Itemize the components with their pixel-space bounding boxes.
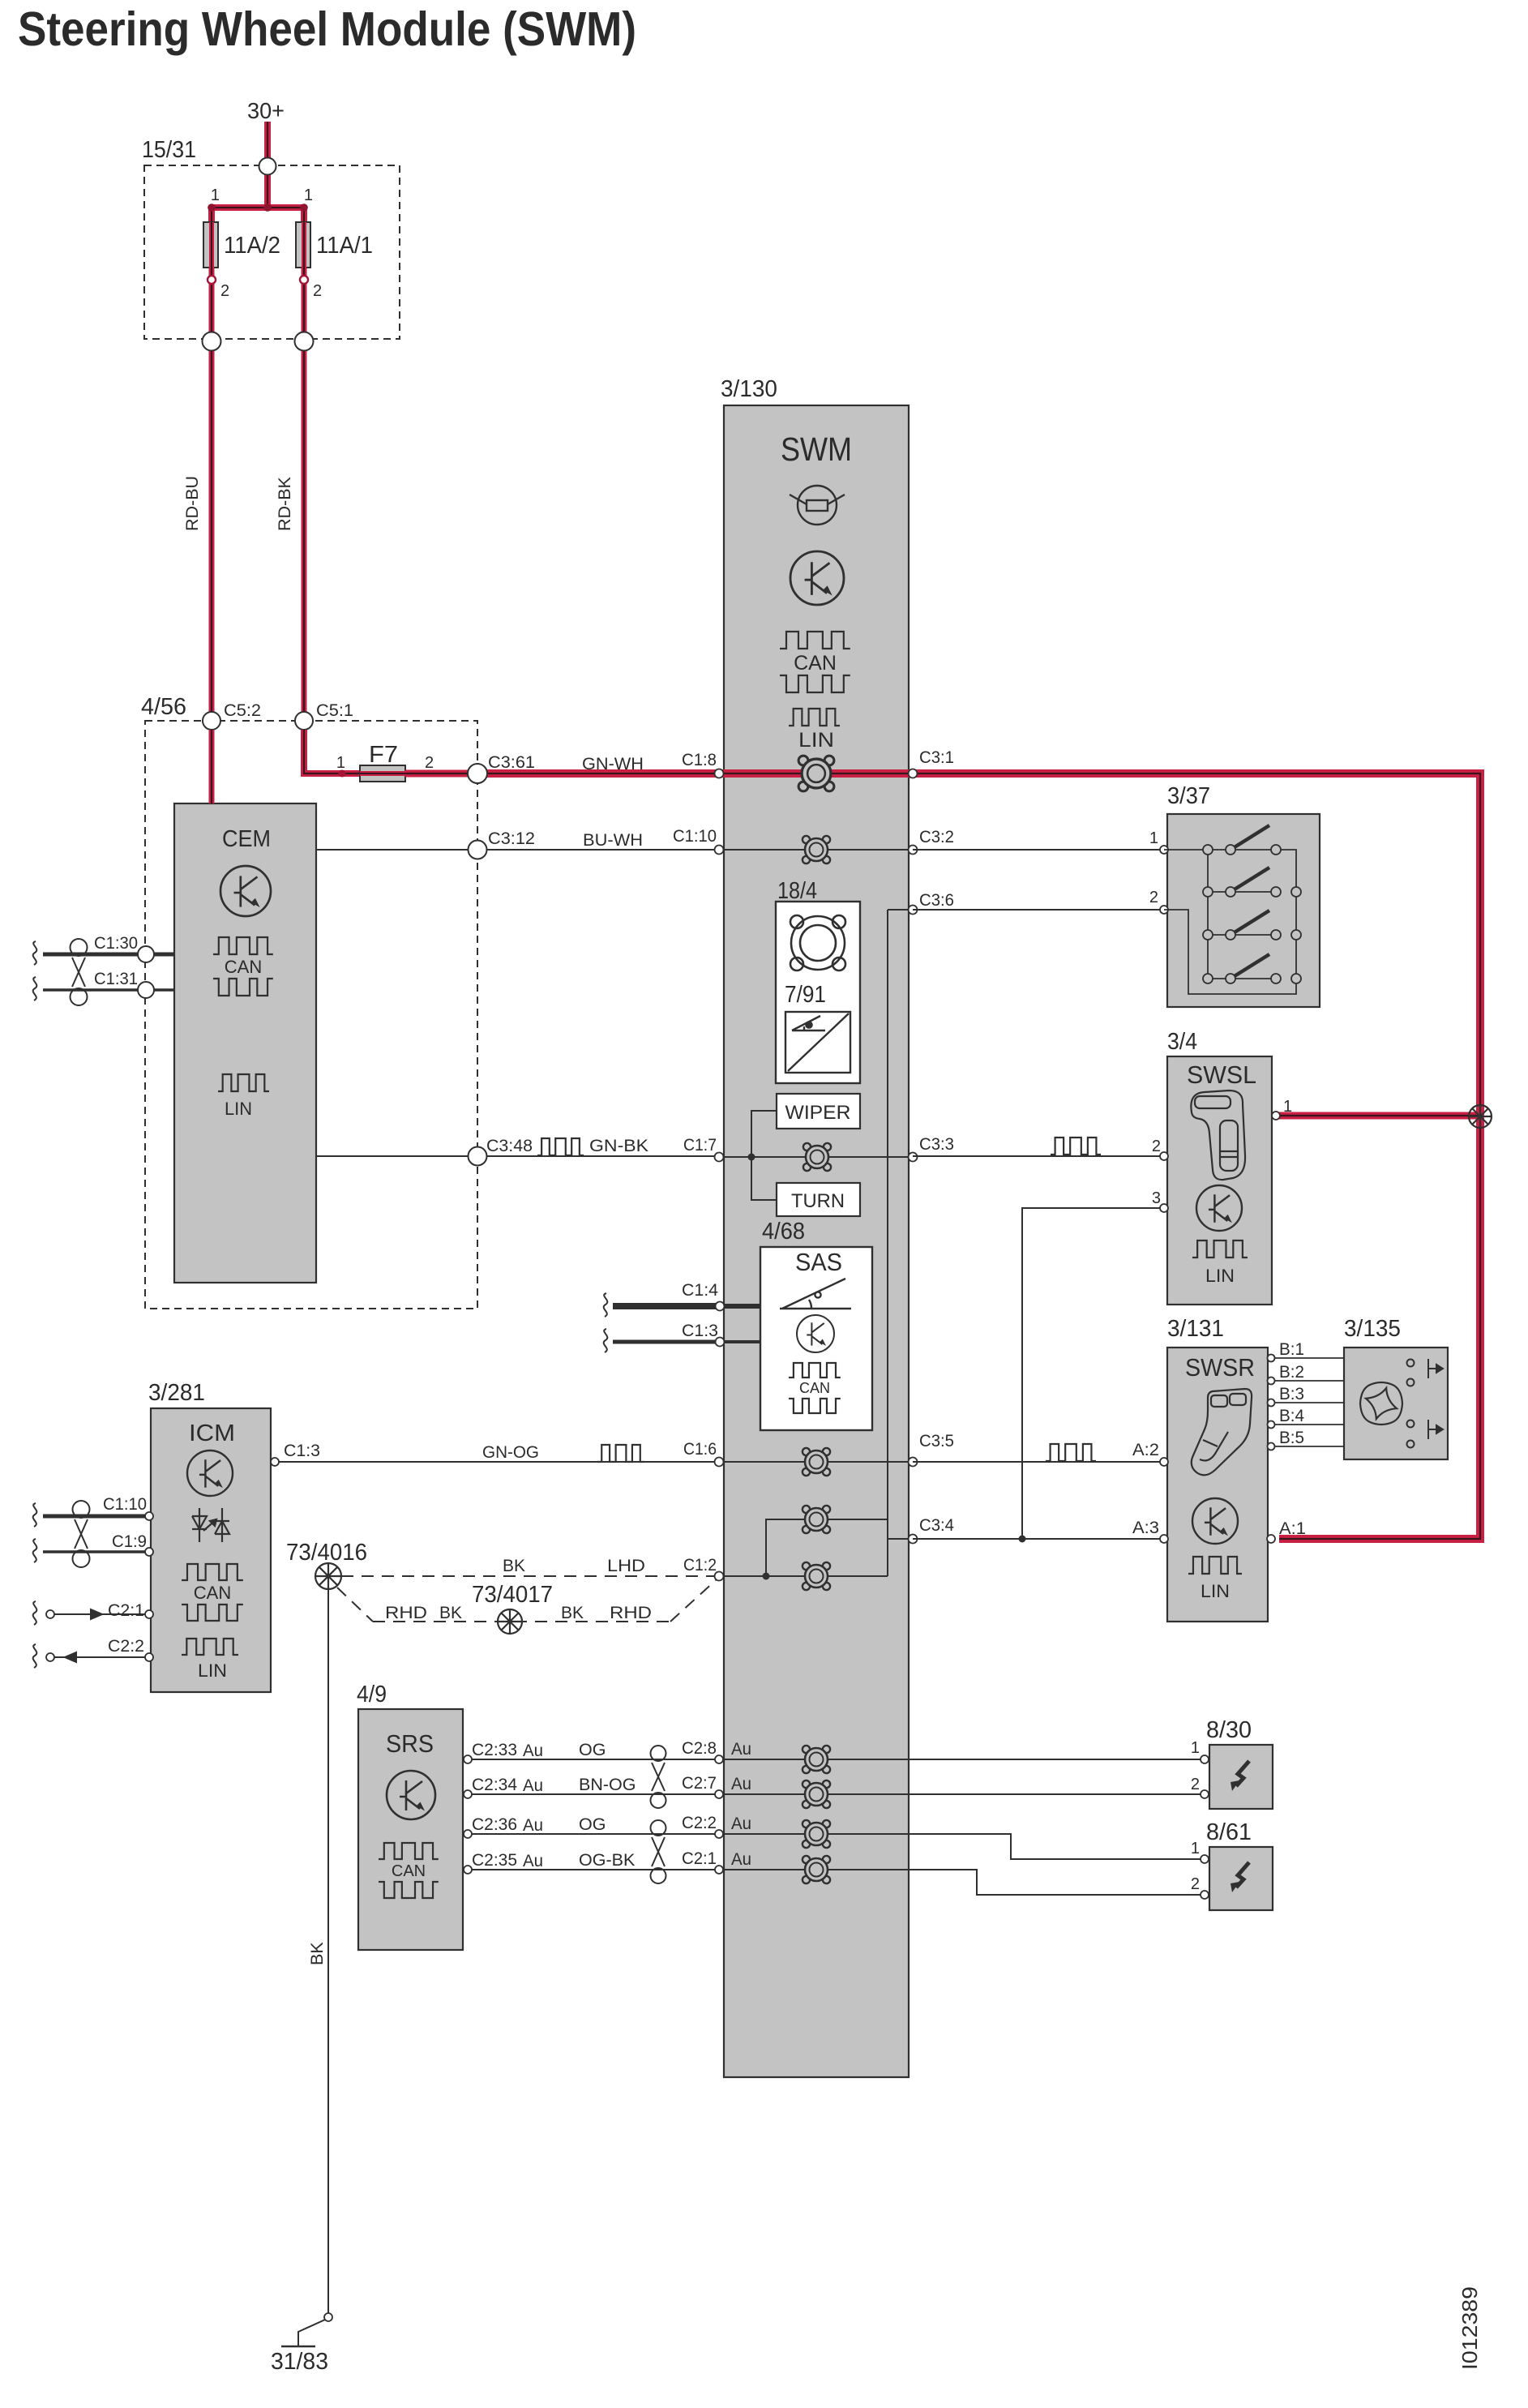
svg-text:73/4017: 73/4017 <box>472 1582 553 1608</box>
logic box TURN <box>777 1183 860 1216</box>
svg-text:B:1: B:1 <box>1279 1339 1304 1359</box>
wire C3:4 exit <box>888 1538 913 1540</box>
svg-text:B:3: B:3 <box>1279 1384 1304 1403</box>
terminal 3/37 pin1 <box>1160 846 1168 854</box>
terminal SWSL pin2 <box>1160 1152 1168 1160</box>
icon SAS steering angle <box>780 1279 851 1309</box>
node C2:2 start <box>46 1653 54 1661</box>
svg-text:C1:10: C1:10 <box>103 1494 147 1514</box>
node 15/31 out right <box>295 332 314 351</box>
icon SWM CAN <box>780 632 850 692</box>
svg-text:C1:7: C1:7 <box>683 1135 717 1155</box>
wire RHD diagonal from splice <box>337 1587 373 1622</box>
switch blade row 4 <box>1231 954 1269 979</box>
wire C1:3 into SAS <box>724 1340 760 1343</box>
wire BU-WH CEM to SWM <box>316 849 724 851</box>
terminal SRS C2:33 <box>464 1755 472 1763</box>
terminal SWM C2:7 <box>715 1790 723 1798</box>
terminal 8/61 pin2 <box>1201 1891 1209 1899</box>
wire C3:5 to SWSR A:2 <box>913 1461 1162 1463</box>
icon ICM control unit <box>187 1450 233 1496</box>
twisted pair CEM CAN <box>71 939 88 1005</box>
wire SAS CAN high C1:4 <box>613 1303 719 1309</box>
svg-text:C5:1: C5:1 <box>316 701 353 720</box>
svg-text:B:4: B:4 <box>1279 1406 1304 1425</box>
svg-text:Au: Au <box>523 1741 543 1760</box>
svg-text:Au: Au <box>523 1815 543 1835</box>
svg-text:15/31: 15/31 <box>142 137 196 163</box>
svg-text:SWM: SWM <box>781 431 852 468</box>
terminal C3:1 <box>909 769 918 778</box>
clockspring 18/4 box <box>776 902 860 1083</box>
icon SWM control unit <box>790 551 844 605</box>
svg-text:CAN: CAN <box>794 652 837 675</box>
terminal C1:3 SWM <box>716 1338 725 1347</box>
svg-text:SAS: SAS <box>795 1248 842 1276</box>
terminal 8/61 pin1 <box>1201 1855 1209 1863</box>
svg-text:BK: BK <box>503 1556 526 1575</box>
svg-text:C3:12: C3:12 <box>488 829 535 848</box>
svg-text:C3:2: C3:2 <box>919 827 954 846</box>
svg-text:LIN: LIN <box>225 1099 252 1119</box>
connector pass-through C2:8 <box>803 1746 830 1773</box>
svg-text:1: 1 <box>1283 1098 1292 1116</box>
wire RD-BU <box>209 351 215 712</box>
svg-text:Au: Au <box>731 1739 751 1759</box>
connector C5:1 <box>295 712 313 730</box>
wire C2:1 serial in <box>54 1613 151 1615</box>
wire branch to TURN <box>751 1157 777 1200</box>
svg-text:C3:5: C3:5 <box>919 1431 954 1450</box>
node F7 pin1 <box>339 770 346 778</box>
node 15/31 supply <box>259 158 276 175</box>
svg-text:LIN: LIN <box>798 729 834 752</box>
wire fuse bus <box>212 204 304 211</box>
wire BN-OG SRS C2:34 to SWM C2:7 <box>468 1793 724 1795</box>
svg-text:1: 1 <box>304 186 313 204</box>
ground node 31/83 <box>324 2313 332 2321</box>
svg-text:GN-BK: GN-BK <box>589 1136 649 1155</box>
svg-text:BK: BK <box>561 1603 584 1622</box>
wire CAN low C1:31 <box>43 988 174 992</box>
junction fuse bus right <box>300 204 308 212</box>
terminal SWSR A:3 <box>1160 1535 1168 1543</box>
svg-text:C1:3: C1:3 <box>284 1441 320 1460</box>
svg-text:C2:2: C2:2 <box>108 1636 144 1656</box>
terminal ICM C1:9 <box>145 1548 153 1556</box>
arrow C2:1 <box>65 1609 102 1619</box>
svg-text:B:2: B:2 <box>1279 1362 1304 1382</box>
wire SAS CAN low C1:3 <box>613 1340 719 1344</box>
wire 3/37 row 1 <box>1208 849 1276 851</box>
splice 73/4016 <box>315 1563 341 1589</box>
terminal C1:31 <box>138 982 154 998</box>
svg-text:BU-WH: BU-WH <box>583 830 643 850</box>
wire C2:8 through SWM <box>724 1759 909 1760</box>
icon SWSL stalk <box>1191 1090 1245 1180</box>
SWSR box 3/131 <box>1167 1348 1268 1622</box>
contacts row 4 <box>1203 974 1301 983</box>
ground symbol 31/83 <box>281 2346 315 2348</box>
terminal 8/30 pin1 <box>1201 1755 1209 1763</box>
svg-text:C1:3: C1:3 <box>682 1321 718 1340</box>
terminal C1:10 <box>715 846 724 855</box>
wire C2:7 through SWM <box>724 1793 909 1795</box>
wire 3/37 left bus <box>1164 850 1208 979</box>
terminal C3:6 <box>909 906 918 915</box>
wire fuse 11A/1 top <box>301 208 307 224</box>
connector pass-through mid <box>803 1506 830 1533</box>
svg-text:LHD: LHD <box>607 1556 645 1575</box>
svg-text:C1:9: C1:9 <box>112 1532 147 1551</box>
wire drop to SWSL pin3 <box>1022 1208 1164 1539</box>
wire B:2 to 3/135 <box>1268 1380 1344 1382</box>
svg-text:8/30: 8/30 <box>1206 1717 1252 1743</box>
svg-text:1: 1 <box>1149 829 1158 847</box>
wire C1:4 into SAS <box>724 1304 760 1309</box>
terminal C3:4 <box>909 1535 918 1544</box>
icon SAS CAN <box>789 1363 841 1413</box>
svg-text:C1:6: C1:6 <box>683 1439 717 1459</box>
svg-text:C2:36: C2:36 <box>472 1815 517 1834</box>
wire mid connector right <box>828 1519 888 1520</box>
icon squib 8/30 <box>1231 1761 1249 1791</box>
svg-text:4/56: 4/56 <box>141 694 186 720</box>
icon wave SWSL pin2 <box>1051 1138 1101 1155</box>
junction fuse bus mid <box>263 204 272 212</box>
icon SAS control unit <box>797 1315 834 1352</box>
terminal SRS C2:35 <box>464 1866 472 1874</box>
wire 30+ to fuse bus <box>264 166 271 208</box>
sensor box 7/91 <box>785 1012 850 1073</box>
wire 30+ feed <box>264 122 271 166</box>
node 15/31 out left <box>203 332 221 351</box>
splice red rail / SWSL supply <box>1469 1105 1492 1128</box>
svg-text:B:5: B:5 <box>1279 1428 1304 1447</box>
terminal B:3 <box>1268 1399 1275 1407</box>
svg-text:CAN: CAN <box>392 1862 426 1880</box>
icon 7/91 rain sensor <box>788 1013 849 1071</box>
svg-text:C3:4: C3:4 <box>919 1515 954 1535</box>
svg-text:C2:2: C2:2 <box>682 1813 717 1832</box>
wire 11A/2 bottom lead <box>209 268 215 332</box>
svg-text:A:1: A:1 <box>1279 1519 1306 1538</box>
contacts row 3 <box>1203 930 1301 940</box>
terminal ICM C2:2 <box>145 1653 153 1661</box>
icon 3/135 buttons lower <box>1407 1420 1444 1448</box>
svg-text:Au: Au <box>523 1776 543 1795</box>
icon SRS CAN <box>379 1843 439 1898</box>
svg-text:4/9: 4/9 <box>357 1682 387 1707</box>
wire power rail C3:1 to SWSR A:1 <box>909 773 1480 1539</box>
terminal 3/37 pin2 <box>1160 906 1168 914</box>
svg-text:1: 1 <box>1191 1840 1200 1857</box>
svg-text:GN-OG: GN-OG <box>482 1442 539 1462</box>
svg-text:OG: OG <box>579 1740 606 1759</box>
svg-text:C3:61: C3:61 <box>488 752 535 772</box>
svg-text:A:2: A:2 <box>1132 1440 1159 1459</box>
wire C5:1 down to F7 <box>304 730 360 773</box>
connector pass-through C3:2 row <box>803 836 830 863</box>
svg-text:TURN: TURN <box>791 1190 845 1212</box>
svg-text:C2:8: C2:8 <box>682 1738 717 1758</box>
terminal 8/30 pin2 <box>1201 1790 1209 1798</box>
wire ICM CAN high C1:10 <box>43 1515 151 1519</box>
connector C5:2 <box>203 712 220 730</box>
connector C3:48 <box>469 1147 487 1166</box>
wire 3/37 row 3 <box>1208 934 1276 936</box>
wire C3:4 to SWSR A:3 <box>913 1538 1162 1540</box>
terminal C1:4 <box>716 1302 725 1311</box>
svg-text:C2:1: C2:1 <box>682 1849 717 1868</box>
pin 2 node of 11A/1 <box>300 276 308 284</box>
fuse 11A/1 <box>296 222 310 268</box>
icon ICM diodes <box>192 1508 229 1542</box>
ICM box 3/281 <box>151 1408 271 1692</box>
wire to ground <box>298 2320 325 2346</box>
svg-text:2: 2 <box>1191 1776 1200 1793</box>
svg-text:BK: BK <box>439 1603 463 1622</box>
connector pass-through C2:2 <box>803 1820 830 1848</box>
SWSL box 3/4 <box>1167 1056 1272 1305</box>
icon ICM LIN wave <box>182 1639 238 1655</box>
break squiggle ICM C1:10 <box>33 1503 37 1527</box>
terminal ICM C1:10 <box>145 1512 153 1520</box>
break squiggle C2:2 <box>33 1644 37 1668</box>
terminal B:5 <box>1268 1443 1275 1450</box>
svg-text:2: 2 <box>313 282 322 300</box>
wire C2:2 through SWM <box>724 1833 909 1835</box>
svg-text:18/4: 18/4 <box>777 878 817 904</box>
icon wave A:2 <box>1046 1444 1096 1461</box>
terminal C3:3 <box>909 1153 918 1162</box>
svg-text:31/83: 31/83 <box>271 2349 328 2375</box>
break squiggle C2:1 <box>33 1601 37 1625</box>
fuse F7 <box>360 765 405 782</box>
svg-text:I012389: I012389 <box>1457 2286 1482 2370</box>
svg-text:Au: Au <box>731 1849 751 1869</box>
terminal B:1 <box>1268 1355 1275 1362</box>
icon wave C3:48 <box>537 1138 584 1155</box>
terminal C1:6 <box>715 1458 724 1467</box>
switch blade row 1 <box>1231 825 1269 850</box>
svg-text:CAN: CAN <box>194 1583 231 1603</box>
terminal SWM C2:1 <box>715 1866 723 1874</box>
svg-text:BN-OG: BN-OG <box>579 1775 636 1794</box>
wire B:5 to 3/135 <box>1268 1446 1344 1447</box>
icon 3/135 knob <box>1360 1382 1402 1425</box>
switch blade row 3 <box>1231 910 1269 935</box>
contacts row 1 <box>1203 845 1281 855</box>
svg-text:C2:35: C2:35 <box>472 1850 517 1870</box>
svg-text:SRS: SRS <box>386 1729 434 1758</box>
CEM box 4/56 <box>174 803 316 1283</box>
wire BK RHD dashed <box>373 1621 670 1622</box>
sensor SAS box 4/68 <box>760 1247 872 1430</box>
svg-text:C1:2: C1:2 <box>683 1555 717 1575</box>
svg-text:ICM: ICM <box>189 1420 235 1446</box>
svg-text:C1:31: C1:31 <box>94 969 138 988</box>
wire C1:10 through SWM <box>724 849 909 851</box>
wire B:1 to 3/135 <box>1268 1357 1344 1359</box>
wire C2:7 to 8/30 pin2 <box>909 1793 1205 1795</box>
svg-text:C2:7: C2:7 <box>682 1773 717 1793</box>
svg-text:C1:4: C1:4 <box>682 1280 718 1300</box>
terminal SWM C2:2 <box>715 1830 723 1838</box>
wire BK ground drop <box>327 1590 329 2313</box>
svg-text:3: 3 <box>1152 1189 1161 1207</box>
twisted pair ICM CAN <box>73 1501 90 1567</box>
svg-text:3/281: 3/281 <box>148 1380 205 1406</box>
terminal SWSR A:2 <box>1160 1458 1168 1466</box>
svg-text:Steering Wheel Module (SWM): Steering Wheel Module (SWM) <box>18 2 636 56</box>
svg-text:2: 2 <box>425 754 434 772</box>
wire F7 to C3:61 <box>405 770 477 778</box>
wire RD-BK <box>302 351 307 712</box>
terminal SWSL pin3 <box>1160 1204 1168 1212</box>
node C2:1 start <box>46 1610 54 1618</box>
switch blade row 2 <box>1231 868 1269 892</box>
terminal C1:2 <box>715 1572 724 1581</box>
icon SWSR LIN wave <box>1188 1557 1242 1574</box>
svg-text:7/91: 7/91 <box>785 982 826 1008</box>
wire CAN high C1:30 <box>43 953 174 957</box>
break squiggle C1:3 <box>604 1329 608 1352</box>
svg-text:SWSL: SWSL <box>1187 1060 1256 1089</box>
wire ICM CAN low C1:9 <box>43 1550 151 1553</box>
svg-text:F7: F7 <box>369 742 398 768</box>
squib 8/61 <box>1209 1847 1273 1910</box>
junction fuse bus left <box>208 204 216 212</box>
svg-text:CAN: CAN <box>799 1380 830 1396</box>
terminal C1:8 <box>715 769 724 778</box>
wire C2:2 to 8/61 pin1 <box>909 1834 1205 1859</box>
wire C2:1 through SWM <box>724 1869 909 1870</box>
terminal SWM C2:8 <box>715 1755 723 1763</box>
svg-text:1: 1 <box>1191 1739 1200 1757</box>
svg-text:C5:2: C5:2 <box>224 701 261 720</box>
break squiggle ICM C1:9 <box>33 1539 37 1562</box>
node F7 pin2 <box>416 770 423 778</box>
svg-text:1: 1 <box>211 186 220 204</box>
svg-text:CAN: CAN <box>225 957 262 977</box>
svg-text:SWSR: SWSR <box>1185 1353 1255 1382</box>
wire C2:8 to 8/30 pin1 <box>909 1759 1205 1760</box>
svg-text:C3:48: C3:48 <box>486 1136 533 1155</box>
svg-text:CEM: CEM <box>222 826 271 852</box>
icon squib 8/61 <box>1231 1862 1249 1892</box>
svg-text:C1:10: C1:10 <box>673 826 717 846</box>
junction SWSL pin3 drop <box>1019 1536 1026 1543</box>
connector area 4/56 dashed boundary <box>145 721 477 1309</box>
wire C1:6 through SWM <box>724 1461 909 1463</box>
wire 3/37 pin2 path <box>1164 850 1296 994</box>
wire mid connector left <box>766 1519 805 1576</box>
icon SWSL control unit <box>1196 1185 1242 1231</box>
logic box WIPER <box>777 1094 860 1129</box>
svg-text:C1:8: C1:8 <box>682 750 717 769</box>
terminal C1:30 <box>138 946 154 962</box>
icon SRS control unit <box>387 1771 435 1819</box>
connector pass-through C2:1 <box>803 1856 830 1883</box>
wire GN-OG ICM to SWM <box>279 1461 724 1463</box>
svg-text:1: 1 <box>336 754 345 772</box>
twisted pair SRS 2 <box>651 1820 666 1883</box>
fusebox 15/31 dashed boundary <box>144 165 400 339</box>
svg-text:11A/2: 11A/2 <box>224 233 280 259</box>
icon CEM control unit <box>220 866 271 916</box>
connector pass-through C3:5 row <box>803 1448 830 1476</box>
icon 18/4 connector <box>790 915 845 970</box>
terminal ICM C1:3 <box>271 1458 279 1466</box>
svg-text:RD-BK: RD-BK <box>275 476 294 531</box>
junction C1:2 mid wire <box>763 1573 770 1580</box>
wire SWM internal bus <box>887 910 888 1576</box>
svg-text:C2:33: C2:33 <box>472 1740 517 1759</box>
button pack 3/135 <box>1344 1348 1448 1459</box>
icon SWM LIN wave <box>789 709 840 726</box>
terminal SRS C2:34 <box>464 1790 472 1798</box>
junction wiper/turn <box>748 1154 755 1161</box>
wire C3:6 exit <box>888 909 913 910</box>
svg-text:2: 2 <box>1191 1875 1200 1893</box>
svg-text:LIN: LIN <box>1205 1266 1235 1286</box>
svg-text:C2:34: C2:34 <box>472 1775 517 1794</box>
wire C3:3 to SWSL pin2 <box>913 1155 1164 1157</box>
terminal SRS C2:36 <box>464 1830 472 1838</box>
wire RHD diagonal to C1:2 <box>670 1580 716 1622</box>
terminal C1:7 <box>715 1153 724 1162</box>
icon SWM illumination resistor <box>790 486 845 525</box>
icon SWSR control unit <box>1192 1498 1238 1544</box>
svg-text:30+: 30+ <box>247 98 285 123</box>
terminal SWSR A:1 <box>1267 1535 1275 1543</box>
wire fuse 11A/2 top <box>208 208 215 224</box>
connector on power line <box>798 756 834 791</box>
wire BK LHD dashed <box>341 1575 714 1577</box>
svg-text:C3:1: C3:1 <box>919 748 954 767</box>
wire B:4 to 3/135 <box>1268 1424 1344 1425</box>
svg-text:LIN: LIN <box>198 1660 227 1681</box>
svg-text:RHD: RHD <box>610 1603 652 1622</box>
svg-text:RD-BU: RD-BU <box>182 476 202 531</box>
wire OG SRS C2:33 to SWM C2:8 <box>468 1759 724 1760</box>
wire C2:2 serial out <box>54 1656 151 1658</box>
svg-text:LIN: LIN <box>1201 1581 1230 1601</box>
squib 8/30 <box>1209 1745 1273 1809</box>
svg-text:C3:3: C3:3 <box>919 1134 954 1154</box>
svg-text:2: 2 <box>1149 889 1158 906</box>
svg-text:OG: OG <box>579 1815 606 1834</box>
wire C3:2 to 3/37 pin1 <box>913 849 1164 851</box>
svg-text:3/131: 3/131 <box>1167 1316 1224 1342</box>
icon wave C1:6 <box>597 1445 644 1462</box>
svg-text:2: 2 <box>1152 1138 1161 1155</box>
terminal B:4 <box>1268 1421 1275 1429</box>
connector pass-through C2:7 <box>803 1780 830 1808</box>
svg-text:3/37: 3/37 <box>1167 783 1210 809</box>
svg-text:WIPER: WIPER <box>785 1102 851 1124</box>
switch box 3/37 <box>1167 814 1320 1007</box>
fuse 11A/2 <box>203 222 218 268</box>
arrow C2:2 <box>65 1652 102 1662</box>
terminal C3:5 <box>909 1458 918 1467</box>
svg-text:Au: Au <box>731 1774 751 1793</box>
wire OG-BK SRS C2:35 to SWM C2:1 <box>468 1869 724 1870</box>
SRS box 4/9 <box>358 1709 463 1950</box>
splice 73/4017 <box>498 1609 522 1634</box>
wire GN-WH C3:61 to C1:8 <box>477 769 724 778</box>
